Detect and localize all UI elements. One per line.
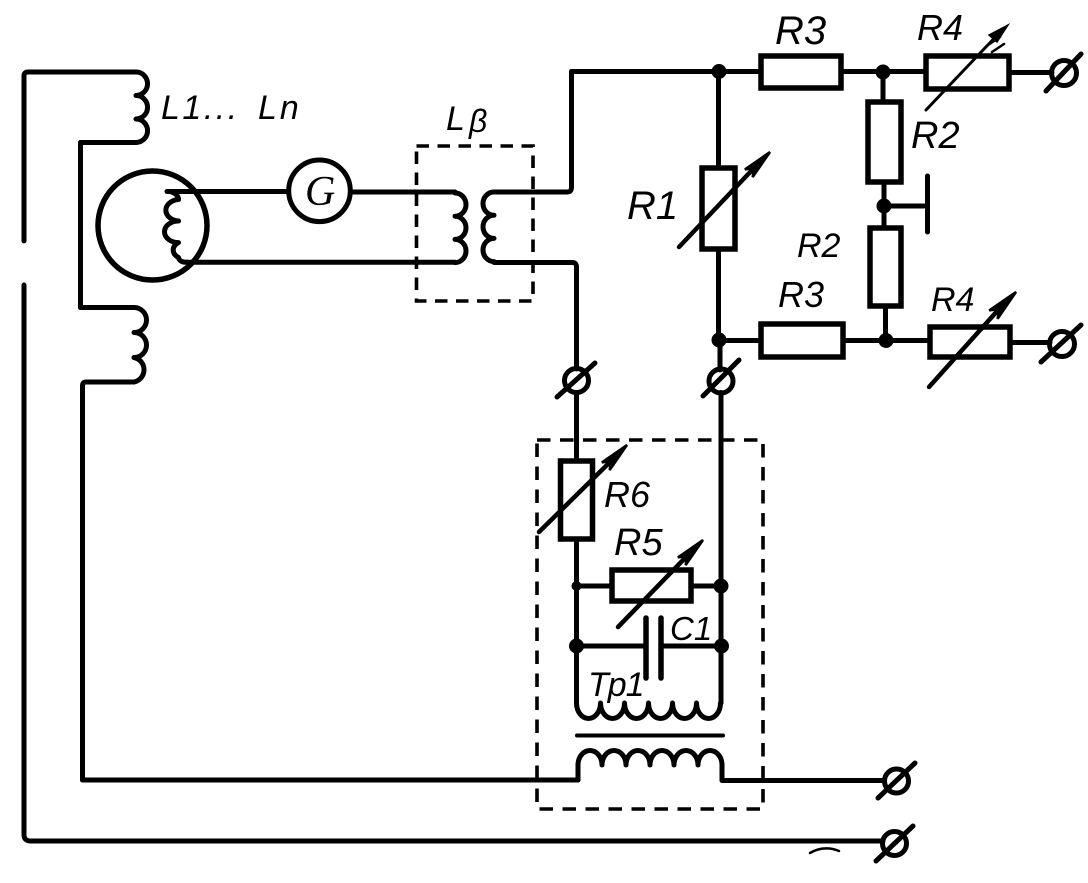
wire: connector down through R5/C1 junctions bbox=[719, 393, 724, 704]
svg-text:G: G bbox=[305, 169, 335, 215]
junction dot lower rail / R1 bbox=[712, 333, 727, 348]
wire: R5 right lead bbox=[691, 584, 721, 589]
junction dot C1 right bbox=[714, 639, 729, 654]
wire: lower rail from R1 junction to R3 bbox=[719, 338, 762, 343]
wire: R2 upper bottom lead to tap junction bbox=[882, 182, 887, 228]
wire: R2 lower bottom lead bbox=[883, 306, 888, 340]
wire: Lb secondary bottom lead down to connector bbox=[494, 263, 577, 370]
wire: inner left vertical between coils bbox=[78, 143, 83, 308]
resistor R2 (upper) bbox=[868, 102, 901, 182]
terminal right (lower rail) bbox=[1050, 332, 1075, 357]
svg-text:L: L bbox=[446, 100, 465, 138]
wire: R4 lower to terminal bbox=[1010, 340, 1050, 345]
wire: long bottom horizontal to transformer bbox=[83, 778, 579, 783]
galvanometer G circle bbox=[289, 160, 351, 222]
wire: secondary right lead bbox=[720, 765, 725, 780]
svg-text:Tp1: Tp1 bbox=[588, 666, 644, 704]
capacitor C1 left plate bbox=[643, 618, 649, 678]
junction dot R5 right bbox=[714, 579, 729, 594]
resistor R3 (lower) bbox=[761, 324, 843, 357]
wire: outer left vertical lower segment and bottom rail bbox=[24, 285, 883, 841]
junction dot top rail / R1 bbox=[712, 64, 727, 79]
wire: tap arm bbox=[884, 204, 924, 209]
wire: top rail to R3 bbox=[572, 69, 762, 74]
junction dot R2 tap bbox=[877, 199, 892, 214]
svg-text:Ln: Ln bbox=[258, 89, 302, 127]
dashed box Lb bbox=[417, 146, 534, 301]
junction dot R6/R5 bbox=[572, 581, 582, 591]
wire: R2 upper top lead bbox=[881, 72, 886, 103]
wire: C1 right lead bbox=[664, 644, 721, 649]
junction dot lower rail / R2 bbox=[879, 333, 894, 348]
terminal top right bbox=[1052, 61, 1077, 86]
svg-text:R3: R3 bbox=[778, 274, 824, 315]
inductor Ln (lower left coil) bbox=[134, 308, 146, 383]
resistor R4 (lower, variable) bbox=[930, 327, 1010, 357]
resistor R1 (variable) bbox=[702, 168, 735, 249]
terminal on R6 branch bbox=[565, 369, 589, 393]
wire: lower coil bottom lead bbox=[83, 382, 135, 780]
wire: R5 left lead bbox=[577, 584, 613, 589]
transformer Tp1 secondary winding bbox=[578, 751, 722, 766]
transformer Tp1 primary winding bbox=[577, 703, 721, 718]
terminal bottom rail bbox=[883, 832, 907, 856]
transformer Tp1 core bbox=[577, 734, 723, 738]
terminal secondary output bbox=[885, 769, 909, 793]
inductor Lb secondary coil bbox=[483, 192, 494, 262]
svg-text:R6: R6 bbox=[604, 474, 651, 515]
svg-text:R2: R2 bbox=[911, 115, 960, 157]
resistor R6 (variable) bbox=[561, 461, 593, 539]
wire: secondary left lead bbox=[576, 765, 581, 780]
svg-text:L1...: L1... bbox=[161, 89, 240, 127]
capacitor C1 right plate bbox=[658, 618, 664, 678]
wire: C1 left lead bbox=[577, 644, 644, 649]
svg-text:R4: R4 bbox=[931, 281, 974, 319]
wire: top rail R3 to R4 bbox=[841, 69, 926, 74]
svg-text:C1: C1 bbox=[670, 610, 712, 647]
svg-text:R1: R1 bbox=[627, 184, 678, 228]
resistor R4 (top, variable) bbox=[926, 56, 1009, 89]
wire: lead into lower coil bbox=[81, 305, 135, 310]
arrow of R4 top bbox=[926, 29, 1003, 110]
wire: top-left horizontal rail bbox=[24, 72, 136, 241]
stray pen mark bbox=[810, 848, 839, 853]
svg-text:R2: R2 bbox=[797, 227, 841, 265]
svg-text:R3: R3 bbox=[775, 9, 826, 53]
wire: R1 junction down to connector bbox=[718, 340, 723, 370]
wire: R1 top lead bbox=[716, 72, 721, 169]
svg-text:R4: R4 bbox=[917, 7, 963, 48]
wire: coil L1 bottom lead bbox=[81, 140, 137, 145]
wire: lower rail R3 to R4 bbox=[843, 338, 930, 343]
wire: machine top lead to G bbox=[167, 189, 289, 194]
arrow of R4 lower bbox=[929, 309, 999, 387]
resistor R3 (top) bbox=[761, 56, 841, 88]
wire: G to Lb primary top lead bbox=[351, 190, 456, 195]
svg-text:R5: R5 bbox=[614, 522, 663, 564]
wire: R4 to terminal bbox=[1009, 70, 1052, 75]
wire: Lb secondary top lead up to top rail bbox=[494, 72, 572, 193]
arrow of R6 bbox=[539, 461, 611, 532]
wire: connector to R6 bbox=[574, 393, 579, 462]
resistor R5 (variable) bbox=[612, 570, 691, 601]
dashed box Tp1 unit bbox=[537, 440, 763, 809]
junction dot top rail / R2 bbox=[876, 65, 891, 80]
svg-text:β: β bbox=[468, 103, 487, 139]
arrow of R5 bbox=[618, 556, 687, 627]
wire: R6 bottom down through junctions to transformer bbox=[574, 539, 579, 703]
inductor L1 (upper left coil) bbox=[136, 72, 148, 143]
tap bar bbox=[925, 176, 930, 232]
wire: machine bottom lead to Lb primary bbox=[187, 260, 455, 265]
machine stator circle bbox=[98, 171, 207, 280]
machine internal winding bbox=[164, 192, 187, 263]
wire: secondary output to right terminal bbox=[722, 778, 885, 783]
arrow of R1 bbox=[679, 168, 754, 247]
inductor Lb primary coil bbox=[455, 193, 466, 263]
terminal on R1 branch bbox=[709, 369, 733, 393]
wire: R1 bottom lead bbox=[716, 249, 721, 340]
junction dot C1 left bbox=[569, 639, 584, 654]
resistor R2 (lower) bbox=[870, 228, 901, 306]
